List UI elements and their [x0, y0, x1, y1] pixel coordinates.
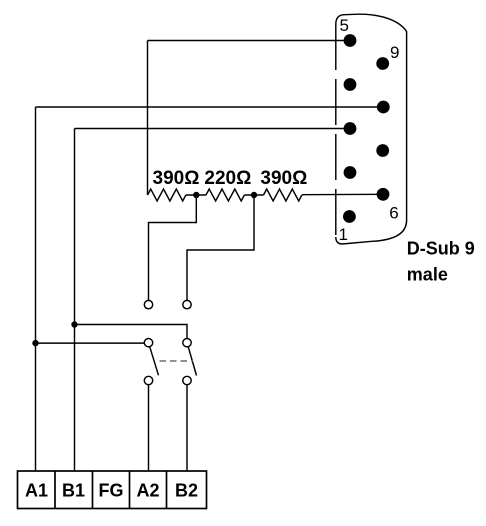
wire: A1 branch to switch left pole [36, 342, 145, 344]
junction dot on A1 line [32, 340, 38, 346]
wire: S1b lower contact to B2 [186, 385, 188, 471]
pin 5 [344, 34, 357, 47]
terminal divider 1 [54, 471, 56, 509]
switch S1a pole circle [144, 339, 152, 347]
switch S1a blade [150, 347, 159, 376]
terminal divider 3 [129, 471, 131, 509]
pin 3 [344, 122, 357, 135]
wire: B1 branch to switch right pole [75, 325, 188, 339]
junction J2 dot [251, 192, 257, 198]
terminal divider 4 [166, 471, 168, 509]
wire: junction J2 branch down to switch contact [187, 195, 254, 300]
svg-text:5: 5 [340, 16, 349, 35]
pin 1 [343, 210, 356, 223]
svg-text:A1: A1 [25, 481, 48, 501]
svg-text:B2: B2 [175, 481, 198, 501]
svg-text:220Ω: 220Ω [204, 168, 251, 189]
wire: B1 to pin3 horizontal [75, 128, 351, 130]
wire: A1 vertical [35, 107, 37, 471]
switch S1b blade [188, 347, 196, 376]
svg-text:390Ω: 390Ω [260, 168, 307, 189]
wire: R2 to R3 [244, 194, 263, 196]
wire: B1 vertical [74, 129, 76, 472]
switch S1a lower contact circle [144, 376, 152, 384]
resistor R1 390ohm [148, 189, 186, 201]
pin 8 [377, 101, 390, 114]
junction J1 dot [193, 192, 199, 198]
svg-text:390Ω: 390Ω [153, 168, 200, 189]
svg-text:6: 6 [389, 204, 398, 223]
svg-text:D-Sub 9: D-Sub 9 [407, 239, 475, 259]
wire: junction J1 branch down to switch contact [149, 195, 197, 300]
pin 2 [344, 166, 357, 179]
wire: R3 to pin6 [302, 193, 383, 195]
svg-text:1: 1 [339, 225, 348, 244]
pin 7 [376, 144, 389, 157]
switch mechanical coupling dashed link [160, 360, 193, 362]
pin 4 [344, 78, 357, 91]
wire: pin5 loop horizontal [148, 40, 351, 42]
D-Sub 9 connector shell outline [336, 14, 407, 244]
terminal divider 2 [92, 471, 94, 509]
resistor R3 390ohm [264, 189, 302, 201]
terminal block outline [18, 471, 207, 509]
svg-text:B1: B1 [62, 481, 85, 501]
pin 9 [376, 57, 389, 70]
svg-text:A2: A2 [136, 481, 159, 501]
svg-text:male: male [407, 264, 448, 284]
junction dot on B1 line [71, 321, 77, 327]
wire: pin5 loop vertical to resistor network [147, 41, 149, 196]
switch S1a upper contact circle [144, 300, 152, 308]
switch S1b lower contact circle [183, 376, 191, 384]
connector mating-face dashed edge [335, 24, 337, 237]
svg-text:9: 9 [390, 43, 399, 62]
wire: R1 to R2 [186, 194, 206, 196]
switch S1b upper contact circle [183, 300, 191, 308]
wire: S1a lower contact to A2 [148, 385, 150, 471]
wire: A1 to pin8 horizontal [36, 106, 384, 108]
svg-text:FG: FG [99, 481, 124, 501]
switch S1b pole circle [183, 339, 191, 347]
resistor R2 220ohm [206, 189, 244, 201]
pin 6 [377, 188, 390, 201]
